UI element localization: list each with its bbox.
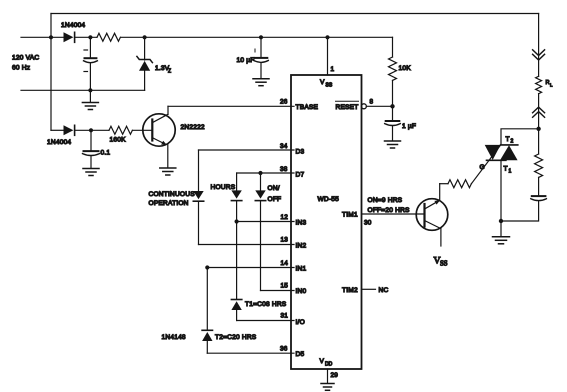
- wire diode to resistor: [75, 36, 97, 38]
- wire VSS drop pin 1: [327, 37, 329, 75]
- svg-text:Z: Z: [168, 69, 171, 75]
- svg-text:30: 30: [364, 220, 372, 227]
- wire triac T1 down: [500, 160, 502, 221]
- svg-text:36: 36: [280, 346, 288, 353]
- svg-text:29: 29: [331, 372, 339, 379]
- capacitor C5 snubber: [501, 196, 546, 221]
- node 0.1 cap tap: [89, 128, 93, 132]
- label T2: [506, 136, 514, 145]
- diode D2 1N4004 lower: [51, 125, 109, 135]
- chevron connector upper: [533, 50, 545, 60]
- svg-text:OFF: OFF: [268, 196, 282, 203]
- label VSS inside: [320, 79, 333, 89]
- ground G4: [253, 79, 269, 86]
- svg-text:1: 1: [509, 169, 512, 175]
- resistor RL load: [536, 76, 542, 93]
- svg-text:DD: DD: [325, 362, 333, 368]
- svg-text:NC: NC: [379, 287, 389, 294]
- label RESET pin name with overline: [336, 101, 359, 111]
- label ON=9 HRS OFF=20 HRS: [368, 197, 411, 214]
- wire resistor to 10K corner: [121, 36, 393, 38]
- zener diode VR1 1.3Vz: [137, 37, 153, 90]
- svg-text:CONTINUOUS: CONTINUOUS: [149, 191, 196, 198]
- label ON/OFF: [268, 185, 282, 203]
- svg-text:HOURS: HOURS: [211, 184, 236, 191]
- node snubber top: [536, 127, 540, 131]
- svg-text:14: 14: [281, 260, 289, 267]
- wire gate diagonal to triac: [471, 145, 500, 184]
- ground G5: [385, 141, 401, 148]
- svg-text:OFF=20 HRS: OFF=20 HRS: [368, 207, 411, 214]
- ground G1: [82, 90, 98, 109]
- svg-text:V: V: [320, 358, 325, 365]
- svg-text:T1=C08 HRS: T1=C08 HRS: [245, 301, 287, 308]
- node triac bottom: [499, 219, 503, 223]
- label 120 VAC 60 Hz: [12, 55, 39, 72]
- svg-text:TIM1: TIM1: [342, 212, 358, 219]
- capacitor C1 electrolytic: [84, 37, 98, 90]
- svg-text:SS: SS: [440, 261, 448, 268]
- wire TIM2 to NC: [362, 288, 376, 290]
- node C1 tap: [88, 35, 92, 39]
- svg-text:26: 26: [280, 99, 288, 106]
- wire reset to RC node: [366, 105, 392, 107]
- wire D3 vertical down to continuous diode: [198, 150, 200, 191]
- wire 120VAC upper terminal lead: [21, 36, 64, 38]
- wire IN2 pin 13 horizontal: [199, 244, 295, 246]
- svg-text:10K: 10K: [399, 65, 412, 72]
- svg-text:T: T: [506, 136, 510, 143]
- svg-text:160K: 160K: [110, 137, 127, 144]
- svg-text:12: 12: [281, 214, 289, 221]
- label VSS below Q2: [434, 256, 448, 268]
- node IN3 tap: [235, 219, 239, 223]
- IC U1 WD-55 body: [291, 75, 362, 369]
- svg-text:120 VAC: 120 VAC: [12, 55, 39, 62]
- svg-text:TIM2: TIM2: [342, 287, 358, 294]
- node IN1 tap: [205, 265, 209, 269]
- svg-text:15: 15: [281, 283, 289, 290]
- node VSS tap: [325, 35, 329, 39]
- svg-text:2N2222: 2N2222: [181, 124, 205, 131]
- wire 160K to Q1 base: [132, 129, 152, 131]
- chevron connector lower: [533, 107, 545, 117]
- triac Q3: [485, 145, 518, 160]
- node reset RC: [390, 104, 394, 108]
- label RL: [546, 80, 554, 88]
- wire hours vertical top: [236, 173, 238, 190]
- node D7 onoff tap: [258, 171, 262, 175]
- resistor R2 160K: [109, 126, 132, 134]
- wire right column top: [538, 14, 540, 77]
- wire D3 pin 34 horizontal: [199, 149, 295, 151]
- wire IN1 vertical down: [206, 268, 208, 331]
- svg-text:I/O: I/O: [296, 319, 305, 326]
- svg-text:1N4148: 1N4148: [162, 334, 186, 341]
- node junction top rail / upper VAC line: [49, 35, 53, 39]
- node zener tap: [143, 35, 147, 39]
- wire top rail: [51, 13, 539, 15]
- svg-text:IN3: IN3: [296, 220, 307, 227]
- wire left vertical from top rail to lower diode branch: [50, 14, 52, 131]
- ground G3 Q1 emitter: [160, 168, 176, 175]
- svg-text:31: 31: [281, 313, 289, 320]
- svg-text:38: 38: [280, 166, 288, 173]
- svg-text:T2=C20 HRS: T2=C20 HRS: [215, 334, 257, 341]
- resistor R1 series: [97, 33, 120, 41]
- wire 120VAC lower terminal lead: [21, 89, 145, 91]
- label CONTINUOUS OPERATION: [149, 191, 196, 207]
- svg-text:60 Hz: 60 Hz: [12, 65, 30, 72]
- wire I/O pin 31 horizontal: [237, 320, 294, 322]
- label VDD inside: [320, 358, 333, 368]
- svg-text:2: 2: [511, 139, 514, 145]
- svg-text:1N4004: 1N4004: [61, 22, 85, 29]
- diode D7b ON/OFF: [255, 190, 265, 290]
- svg-text:D5: D5: [296, 351, 305, 358]
- svg-text:L: L: [550, 83, 553, 88]
- svg-text:D3: D3: [296, 149, 305, 156]
- wire IN3 pin 12 horizontal: [237, 221, 294, 223]
- svg-text:13: 13: [281, 237, 289, 244]
- wire triac T2 to node: [501, 129, 539, 145]
- svg-text:IN0: IN0: [296, 288, 307, 295]
- capacitor C2 0.1: [83, 130, 100, 168]
- diode D9 1N4148 T2 C20: [202, 330, 212, 353]
- svg-text:OPERATION: OPERATION: [149, 200, 189, 207]
- node lower line ground tap: [88, 88, 92, 92]
- ground G2: [83, 169, 99, 176]
- ground G7 triac: [493, 221, 510, 244]
- svg-text:IN1: IN1: [296, 266, 307, 273]
- svg-text:V: V: [320, 79, 325, 86]
- node 10uF tap: [259, 35, 263, 39]
- svg-text:34: 34: [280, 143, 288, 150]
- wire IN0 pin 15 horizontal: [261, 290, 295, 292]
- svg-text:TBASE: TBASE: [296, 104, 319, 111]
- ground G6 VDD: [321, 384, 334, 391]
- wire D5 pin 36 horizontal: [207, 352, 294, 354]
- resistor R4 gate: [448, 180, 471, 188]
- diode D1 1N4004 upper: [64, 32, 75, 42]
- wire IN1 pin 14 horizontal: [207, 267, 294, 269]
- svg-text:D7: D7: [296, 172, 305, 179]
- capacitor C3 10uF: [254, 37, 269, 78]
- capacitor C4 1uF: [385, 106, 401, 140]
- diode D8 T1 C08: [231, 300, 241, 321]
- reset bubble: [361, 104, 366, 109]
- svg-text:IN2: IN2: [296, 243, 307, 250]
- wire onoff vertical: [260, 173, 262, 190]
- transistor Q1 2N2222: [143, 106, 175, 167]
- diode D7a HOURS: [231, 190, 241, 299]
- svg-text:RESET: RESET: [336, 104, 359, 111]
- svg-text:0.1: 0.1: [101, 150, 111, 157]
- wire TIM1 to Q2 base: [362, 213, 425, 215]
- wire D7 pin 38 horizontal: [237, 172, 294, 174]
- svg-text:8: 8: [370, 99, 374, 106]
- wire RL to node: [538, 94, 540, 129]
- svg-text:1N4004: 1N4004: [47, 139, 71, 146]
- diode D3a continuous operation: [193, 191, 203, 245]
- svg-text:WD-55: WD-55: [318, 196, 340, 203]
- resistor R3 10K: [389, 37, 397, 106]
- wire Q2 emitter to gate resistor: [440, 183, 448, 185]
- svg-text:ON/: ON/: [268, 185, 280, 192]
- wire Q1 collector to TBASE pin 26: [168, 105, 294, 107]
- svg-text:G: G: [480, 164, 485, 171]
- label T1: [504, 166, 512, 175]
- wire VDD stub pin 29: [327, 369, 329, 383]
- transistor Q2: [416, 184, 448, 246]
- svg-text:10 µF: 10 µF: [237, 57, 255, 64]
- svg-text:ON=9 HRS: ON=9 HRS: [368, 197, 403, 204]
- svg-text:SS: SS: [326, 83, 333, 89]
- svg-text:1: 1: [331, 66, 335, 73]
- svg-text:T: T: [504, 166, 508, 173]
- resistor R5 snubber: [535, 129, 543, 196]
- label 1.3Vz: [155, 65, 171, 75]
- svg-text:1 µF: 1 µF: [402, 123, 416, 130]
